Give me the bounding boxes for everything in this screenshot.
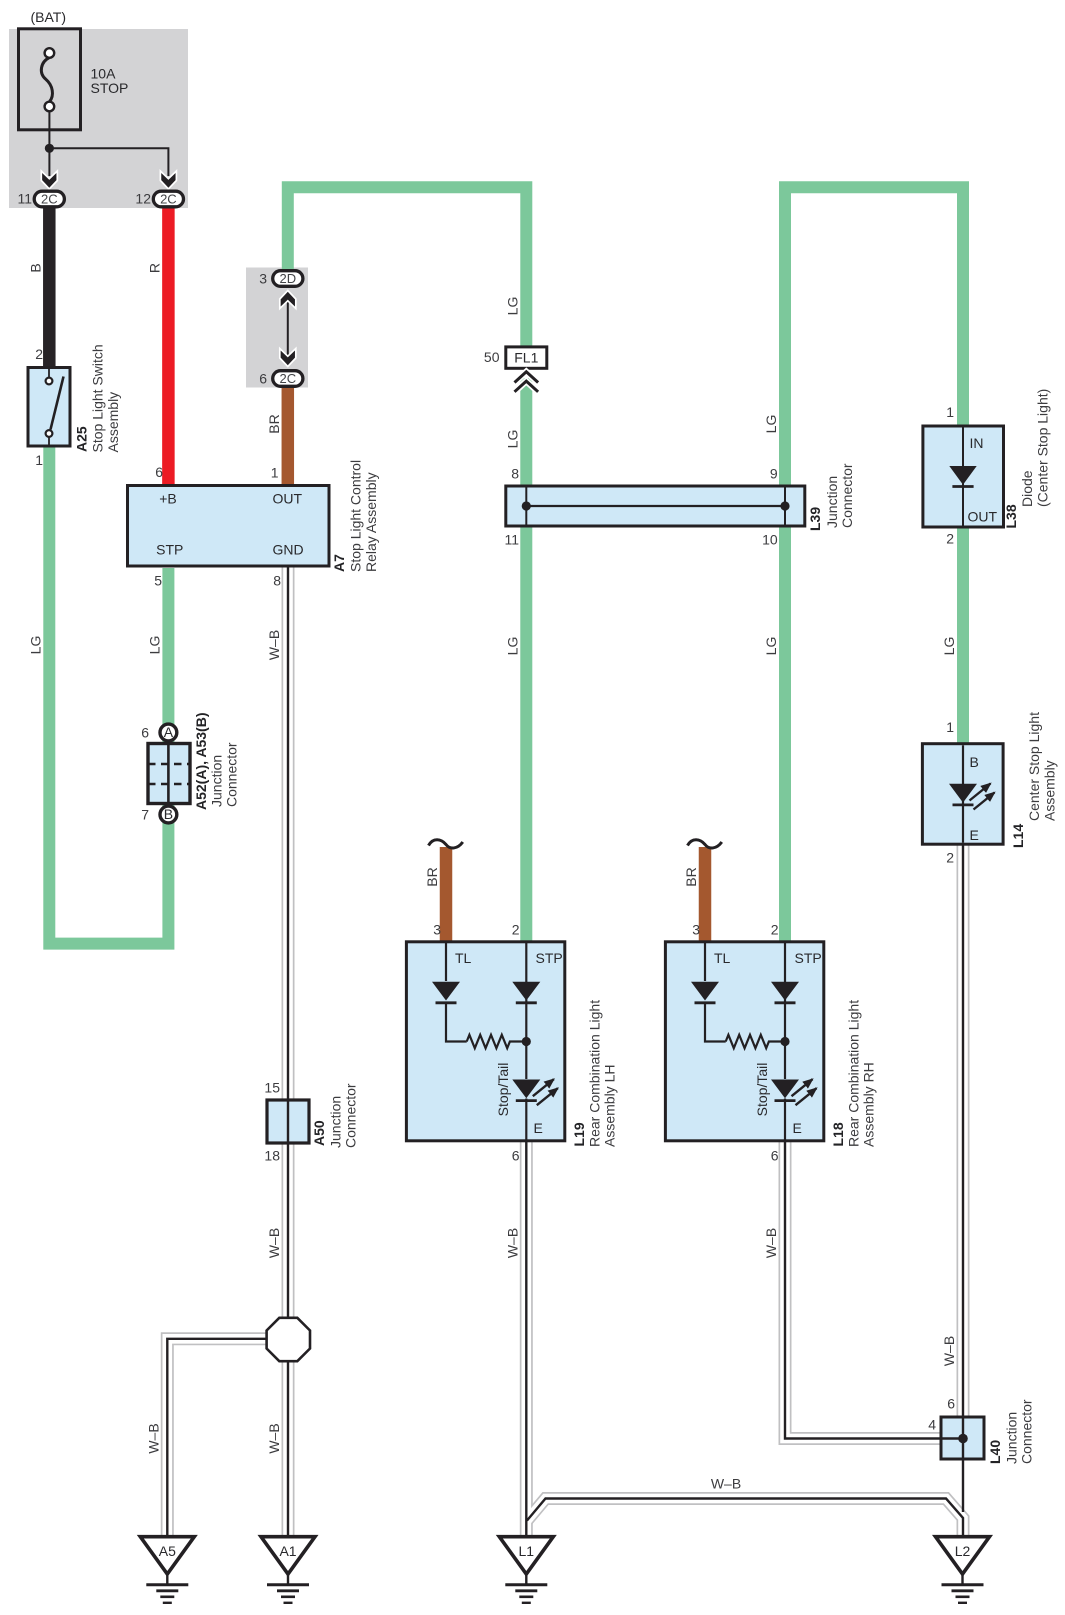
relay A7 stop light control [128, 486, 330, 567]
svg-text:2C: 2C [41, 192, 58, 207]
svg-text:B: B [164, 806, 173, 822]
svg-text:GND: GND [272, 542, 303, 558]
svg-text:BR: BR [424, 867, 440, 886]
wire W-B L14 pin2 to L40 pin6 (outline) [957, 842, 970, 1418]
connector oval 11 2C [34, 191, 64, 207]
svg-text:Center Stop Light: Center Stop Light [1026, 712, 1042, 821]
diode L38 [923, 426, 1004, 527]
stop/tail LED L18 [771, 1080, 799, 1099]
svg-text:A52(A), A53(B): A52(A), A53(B) [193, 713, 209, 811]
svg-text:W–B: W–B [941, 1336, 957, 1366]
svg-text:Rear Combination Light: Rear Combination Light [587, 1000, 603, 1147]
svg-text:3: 3 [692, 922, 700, 938]
svg-text:Connector: Connector [224, 742, 240, 807]
svg-text:L1: L1 [519, 1543, 535, 1559]
resistor L18 [726, 1035, 785, 1048]
junction node under fuse [45, 144, 54, 153]
svg-text:Junction: Junction [328, 1096, 344, 1148]
svg-text:(Center Stop Light): (Center Stop Light) [1035, 389, 1051, 507]
wire L40 pin out to L2 ground [962, 1459, 964, 1512]
rear combination light L18 [665, 942, 823, 1141]
wire BR connector 2C to relay OUT [282, 382, 295, 489]
junction connector A52/A53 [148, 724, 190, 823]
svg-text:B: B [970, 754, 979, 770]
svg-text:Rear Combination Light: Rear Combination Light [846, 1000, 862, 1147]
stop light switch A25 [28, 368, 70, 447]
svg-text:7: 7 [141, 807, 149, 823]
W-B wires (white body layer) [167, 565, 963, 1537]
wire W-B L18 to L40 (white body) [785, 1140, 942, 1439]
center stop light L14 [922, 744, 1003, 845]
svg-text:2: 2 [946, 531, 954, 547]
svg-text:6: 6 [947, 1396, 955, 1412]
junction node L19 [522, 1037, 531, 1046]
ground L1 [499, 1537, 553, 1603]
wire W-B L19 to ground L1 (white body) [521, 1140, 531, 1537]
wire R (red) fuse 12 to relay +B [162, 206, 175, 489]
svg-text:LG: LG [504, 637, 520, 656]
svg-text:W–B: W–B [504, 1228, 520, 1258]
wire W-B L19 pin6 to ground L1 (outline) [520, 1140, 533, 1537]
wire W-B relay GND to ground A1 (white body) [283, 565, 293, 1537]
svg-text:A5: A5 [159, 1543, 176, 1559]
svg-text:Relay Assembly: Relay Assembly [363, 472, 379, 572]
wire B (black) fuse 11 to stop light switch [43, 206, 56, 372]
svg-text:TL: TL [714, 950, 731, 966]
svg-text:Assembly RH: Assembly RH [861, 1062, 877, 1147]
junction block gray background [9, 29, 188, 208]
svg-text:Stop/Tail: Stop/Tail [495, 1063, 511, 1117]
wire fuse node to pin 11 [48, 148, 50, 176]
svg-text:Junction: Junction [209, 755, 225, 807]
svg-text:LG: LG [27, 636, 43, 655]
svg-text:BR: BR [266, 414, 282, 433]
wire LG L39 pin9 up, across, down to L38 IN [785, 187, 963, 490]
svg-text:12: 12 [135, 191, 151, 207]
wire W-B L18 pin6 to L40 pin4 (outline) [785, 1140, 942, 1439]
wire W-B relay GND to A50 to octagon splice to ground A1 (outline) [282, 565, 295, 1537]
svg-text:2C: 2C [160, 192, 177, 207]
svg-text:E: E [970, 827, 979, 843]
svg-text:2: 2 [35, 346, 43, 362]
svg-text:L2: L2 [955, 1543, 971, 1559]
svg-text:Assembly: Assembly [1042, 760, 1058, 821]
svg-text:3: 3 [433, 922, 441, 938]
wire W-B link L1 to L2 (white body) [527, 1499, 963, 1538]
svg-text:L19: L19 [571, 1122, 587, 1146]
wire LG L39 pin10 to L18 STP [779, 523, 791, 943]
svg-text:2: 2 [512, 922, 520, 938]
connector oval 12 2C [153, 191, 183, 207]
svg-text:Stop Light Switch: Stop Light Switch [90, 344, 106, 452]
W-B wires (black stripe layer) [167, 565, 963, 1537]
svg-text:1: 1 [35, 452, 43, 468]
connector 2D/2C gray background [246, 268, 308, 388]
svg-text:STP: STP [156, 542, 183, 558]
wire W-B relay GND to ground A1 (black stripe) [287, 565, 289, 1537]
wire W-B link L1 to L2 (black stripe) [527, 1499, 963, 1538]
svg-text:2: 2 [946, 850, 954, 866]
svg-text:+B: +B [159, 491, 177, 507]
stop/tail LED L19 [512, 1080, 540, 1099]
svg-text:A25: A25 [74, 426, 90, 452]
svg-text:6: 6 [259, 371, 267, 387]
wire LG below FL1 to L39 pin8 [520, 378, 532, 489]
svg-text:Diode: Diode [1019, 470, 1035, 507]
svg-text:IN: IN [970, 435, 984, 451]
svg-text:BR: BR [683, 867, 699, 886]
junction node L18 [780, 1037, 789, 1046]
svg-text:L38: L38 [1003, 504, 1019, 528]
fuse 10A STOP [19, 29, 81, 144]
wire BR stub to L18 TL [699, 847, 712, 944]
svg-text:LG: LG [763, 415, 779, 434]
svg-text:6: 6 [771, 1148, 779, 1164]
svg-text:50: 50 [484, 349, 500, 365]
svg-text:A50: A50 [311, 1120, 327, 1146]
svg-text:6: 6 [512, 1148, 520, 1164]
svg-text:11: 11 [17, 191, 32, 207]
svg-text:Connector: Connector [343, 1083, 359, 1148]
svg-text:LG: LG [146, 636, 162, 655]
junction connector A50 [267, 1100, 309, 1143]
junction connector L40 [941, 1417, 984, 1459]
junction connector L39 [506, 486, 805, 526]
svg-text:L39: L39 [807, 507, 823, 531]
svg-text:11: 11 [504, 532, 519, 548]
svg-text:OUT: OUT [968, 509, 998, 525]
splice octagon [267, 1318, 310, 1361]
svg-text:R: R [146, 263, 162, 273]
connector 2D/2C pass-through [273, 271, 303, 387]
wire W-B octagon to ground A5 (white body) [167, 1339, 270, 1537]
svg-text:4: 4 [928, 1417, 936, 1433]
svg-text:FL1: FL1 [514, 350, 538, 366]
svg-text:LG: LG [763, 637, 779, 656]
svg-text:A7: A7 [331, 554, 347, 572]
svg-text:STOP: STOP [91, 80, 129, 96]
fusible link FL1 [506, 347, 547, 392]
svg-text:W–B: W–B [266, 630, 282, 660]
wire W-B L14 to L40 (black stripe) [962, 842, 964, 1418]
diode STP L18 [771, 982, 799, 1001]
diode STP L19 [512, 982, 540, 1001]
svg-text:18: 18 [264, 1148, 280, 1164]
svg-text:STP: STP [536, 950, 563, 966]
svg-text:A: A [164, 724, 174, 740]
svg-text:2: 2 [771, 922, 779, 938]
svg-text:OUT: OUT [273, 491, 303, 507]
resistor L19 [467, 1035, 527, 1048]
svg-text:Junction: Junction [1004, 1412, 1020, 1464]
wire LG L38 OUT to L14 B [957, 524, 969, 746]
svg-text:E: E [793, 1120, 802, 1136]
svg-text:W–B: W–B [266, 1423, 282, 1453]
svg-text:L14: L14 [1010, 824, 1026, 848]
arrow into connector 12 [160, 171, 176, 189]
wire BR stub to L19 TL [440, 847, 453, 944]
svg-text:Assembly: Assembly [105, 392, 121, 453]
svg-text:1: 1 [946, 404, 954, 420]
wire LG switch pin1 to relay STP via A52 [49, 443, 168, 944]
ground A1 [261, 1537, 315, 1603]
W-B wires (gray outline layer) [167, 565, 963, 1537]
svg-text:A1: A1 [279, 1543, 296, 1559]
svg-text:2C: 2C [279, 371, 296, 386]
svg-text:L18: L18 [830, 1122, 846, 1146]
svg-text:W–B: W–B [711, 1476, 741, 1492]
wire W-B octagon to ground A5 (black stripe) [167, 1339, 270, 1537]
wire W-B L18 to L40 (black stripe) [785, 1140, 942, 1439]
svg-text:6: 6 [155, 464, 163, 480]
svg-text:LG: LG [504, 297, 520, 316]
svg-text:Connector: Connector [1019, 1399, 1035, 1464]
svg-text:8: 8 [511, 466, 519, 482]
wire W-B L14 to L40 (white body) [958, 842, 968, 1418]
ground A5 [140, 1537, 194, 1603]
svg-text:15: 15 [264, 1080, 280, 1096]
svg-text:Stop Light Control: Stop Light Control [348, 460, 364, 572]
wire LG relay OUT branch: 2D up, across, down to FL1 [288, 187, 527, 350]
svg-text:9: 9 [770, 466, 778, 482]
svg-text:Assembly LH: Assembly LH [602, 1065, 618, 1147]
svg-text:W–B: W–B [763, 1228, 779, 1258]
svg-text:LG: LG [941, 637, 957, 656]
svg-text:Stop/Tail: Stop/Tail [754, 1063, 770, 1117]
squiggle BR stub L19 [429, 840, 463, 848]
svg-text:3: 3 [259, 271, 267, 287]
wire W-B octagon splice to ground A5 (outline) [167, 1339, 270, 1537]
diode TL L18 [691, 982, 719, 1001]
wire LG L39 pin11 to L19 STP [520, 523, 532, 943]
svg-text:6: 6 [141, 725, 149, 741]
svg-text:B: B [27, 263, 43, 272]
svg-text:10: 10 [762, 532, 778, 548]
svg-text:1: 1 [271, 465, 279, 481]
svg-text:LG: LG [504, 430, 520, 449]
svg-text:STP: STP [795, 950, 822, 966]
svg-text:W–B: W–B [266, 1228, 282, 1258]
svg-text:8: 8 [273, 573, 281, 589]
svg-text:1: 1 [946, 719, 954, 735]
wire W-B link L1 to L2 (outline) [527, 1499, 963, 1538]
wire W-B L19 to ground L1 (black stripe) [525, 1140, 527, 1537]
svg-text:5: 5 [154, 573, 162, 589]
svg-text:W–B: W–B [145, 1423, 161, 1453]
diode TL L19 [432, 982, 460, 1001]
svg-text:Connector: Connector [839, 463, 855, 528]
svg-text:2D: 2D [279, 271, 296, 286]
rear combination light L19 [406, 942, 564, 1141]
svg-text:Junction: Junction [824, 476, 840, 528]
svg-text:L40: L40 [987, 1440, 1003, 1464]
svg-text:(BAT): (BAT) [31, 9, 67, 25]
svg-text:E: E [534, 1120, 543, 1136]
squiggle BR stub L18 [688, 840, 722, 848]
ground L2 [936, 1537, 990, 1603]
arrow into connector 11 [41, 171, 57, 189]
svg-text:TL: TL [455, 950, 472, 966]
wire fuse node to pin 12 [49, 148, 168, 176]
